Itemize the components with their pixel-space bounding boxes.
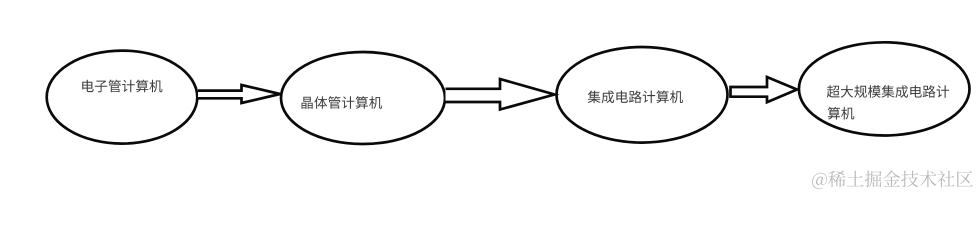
node ellipse: 晶体管计算机	[281, 52, 445, 144]
label 算机 (line 2)	[828, 107, 855, 120]
label 电子管计算机	[82, 80, 162, 93]
block arrow 3 (集成电路→超大规模)	[731, 77, 798, 102]
label 集成电路计算机	[588, 90, 683, 103]
node ellipse: 电子管计算机	[47, 51, 198, 144]
label 晶体管计算机	[302, 96, 383, 109]
node ellipse: 超大规模集成电路计算机	[799, 42, 970, 135]
node ellipse: 集成电路计算机	[557, 47, 728, 143]
watermark @稀土掘金技术社区	[812, 171, 973, 190]
block arrow 2 (晶体管→集成电路)	[446, 79, 555, 110]
block arrow 1 (电子管→晶体管)	[198, 85, 280, 103]
label 超大规模集成电路计 (line 1)	[827, 85, 949, 98]
